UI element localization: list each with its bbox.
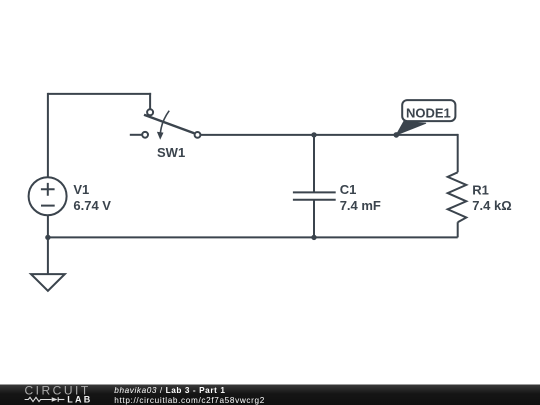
wire ground vertical [47,237,49,274]
switch SW1 [142,109,200,139]
capacitor C1 [293,192,336,199]
footer bar [0,385,540,405]
svg-text:7.4 kΩ: 7.4 kΩ [472,198,511,213]
wire V1 bottom vertical [47,215,49,238]
svg-text:R1: R1 [472,182,489,197]
svg-text:http://circuitlab.com/c2f7a58v: http://circuitlab.com/c2f7a58vwcrg2 [114,396,265,405]
wire left vertical to V1 [47,93,49,178]
wire open stub left of switch [130,134,142,136]
svg-text:V1: V1 [73,182,89,197]
voltage source V1 [29,177,67,215]
wire C1 bottom vertical [313,200,315,239]
svg-text:LAB: LAB [67,394,92,404]
wire C1 top vertical [313,134,315,193]
svg-text:6.74 V: 6.74 V [73,198,111,213]
junction dot C1 top [311,132,316,137]
wire switch to right column [200,134,457,136]
node NODE1 callout [396,100,455,135]
svg-text:SW1: SW1 [157,145,185,160]
wire switch top stub [149,93,151,110]
wire top-left horizontal [48,93,151,95]
CircuitLab logo glyph (resistor + diode) [25,397,65,402]
ground [31,274,65,291]
junction node NODE1 [394,132,400,138]
junction dot C1 bottom [311,235,316,240]
resistor R1 [448,172,467,222]
svg-text:bhavika03 / Lab 3 - Part 1: bhavika03 / Lab 3 - Part 1 [114,386,225,395]
svg-text:NODE1: NODE1 [406,105,451,120]
wire right vertical upper (to R1) [457,134,459,172]
svg-text:7.4 mF: 7.4 mF [340,198,381,213]
wire bottom horizontal [48,236,458,238]
svg-text:C1: C1 [340,182,357,197]
junction dot at V1/ground [45,235,50,240]
wire right vertical lower (from R1) [457,222,459,237]
